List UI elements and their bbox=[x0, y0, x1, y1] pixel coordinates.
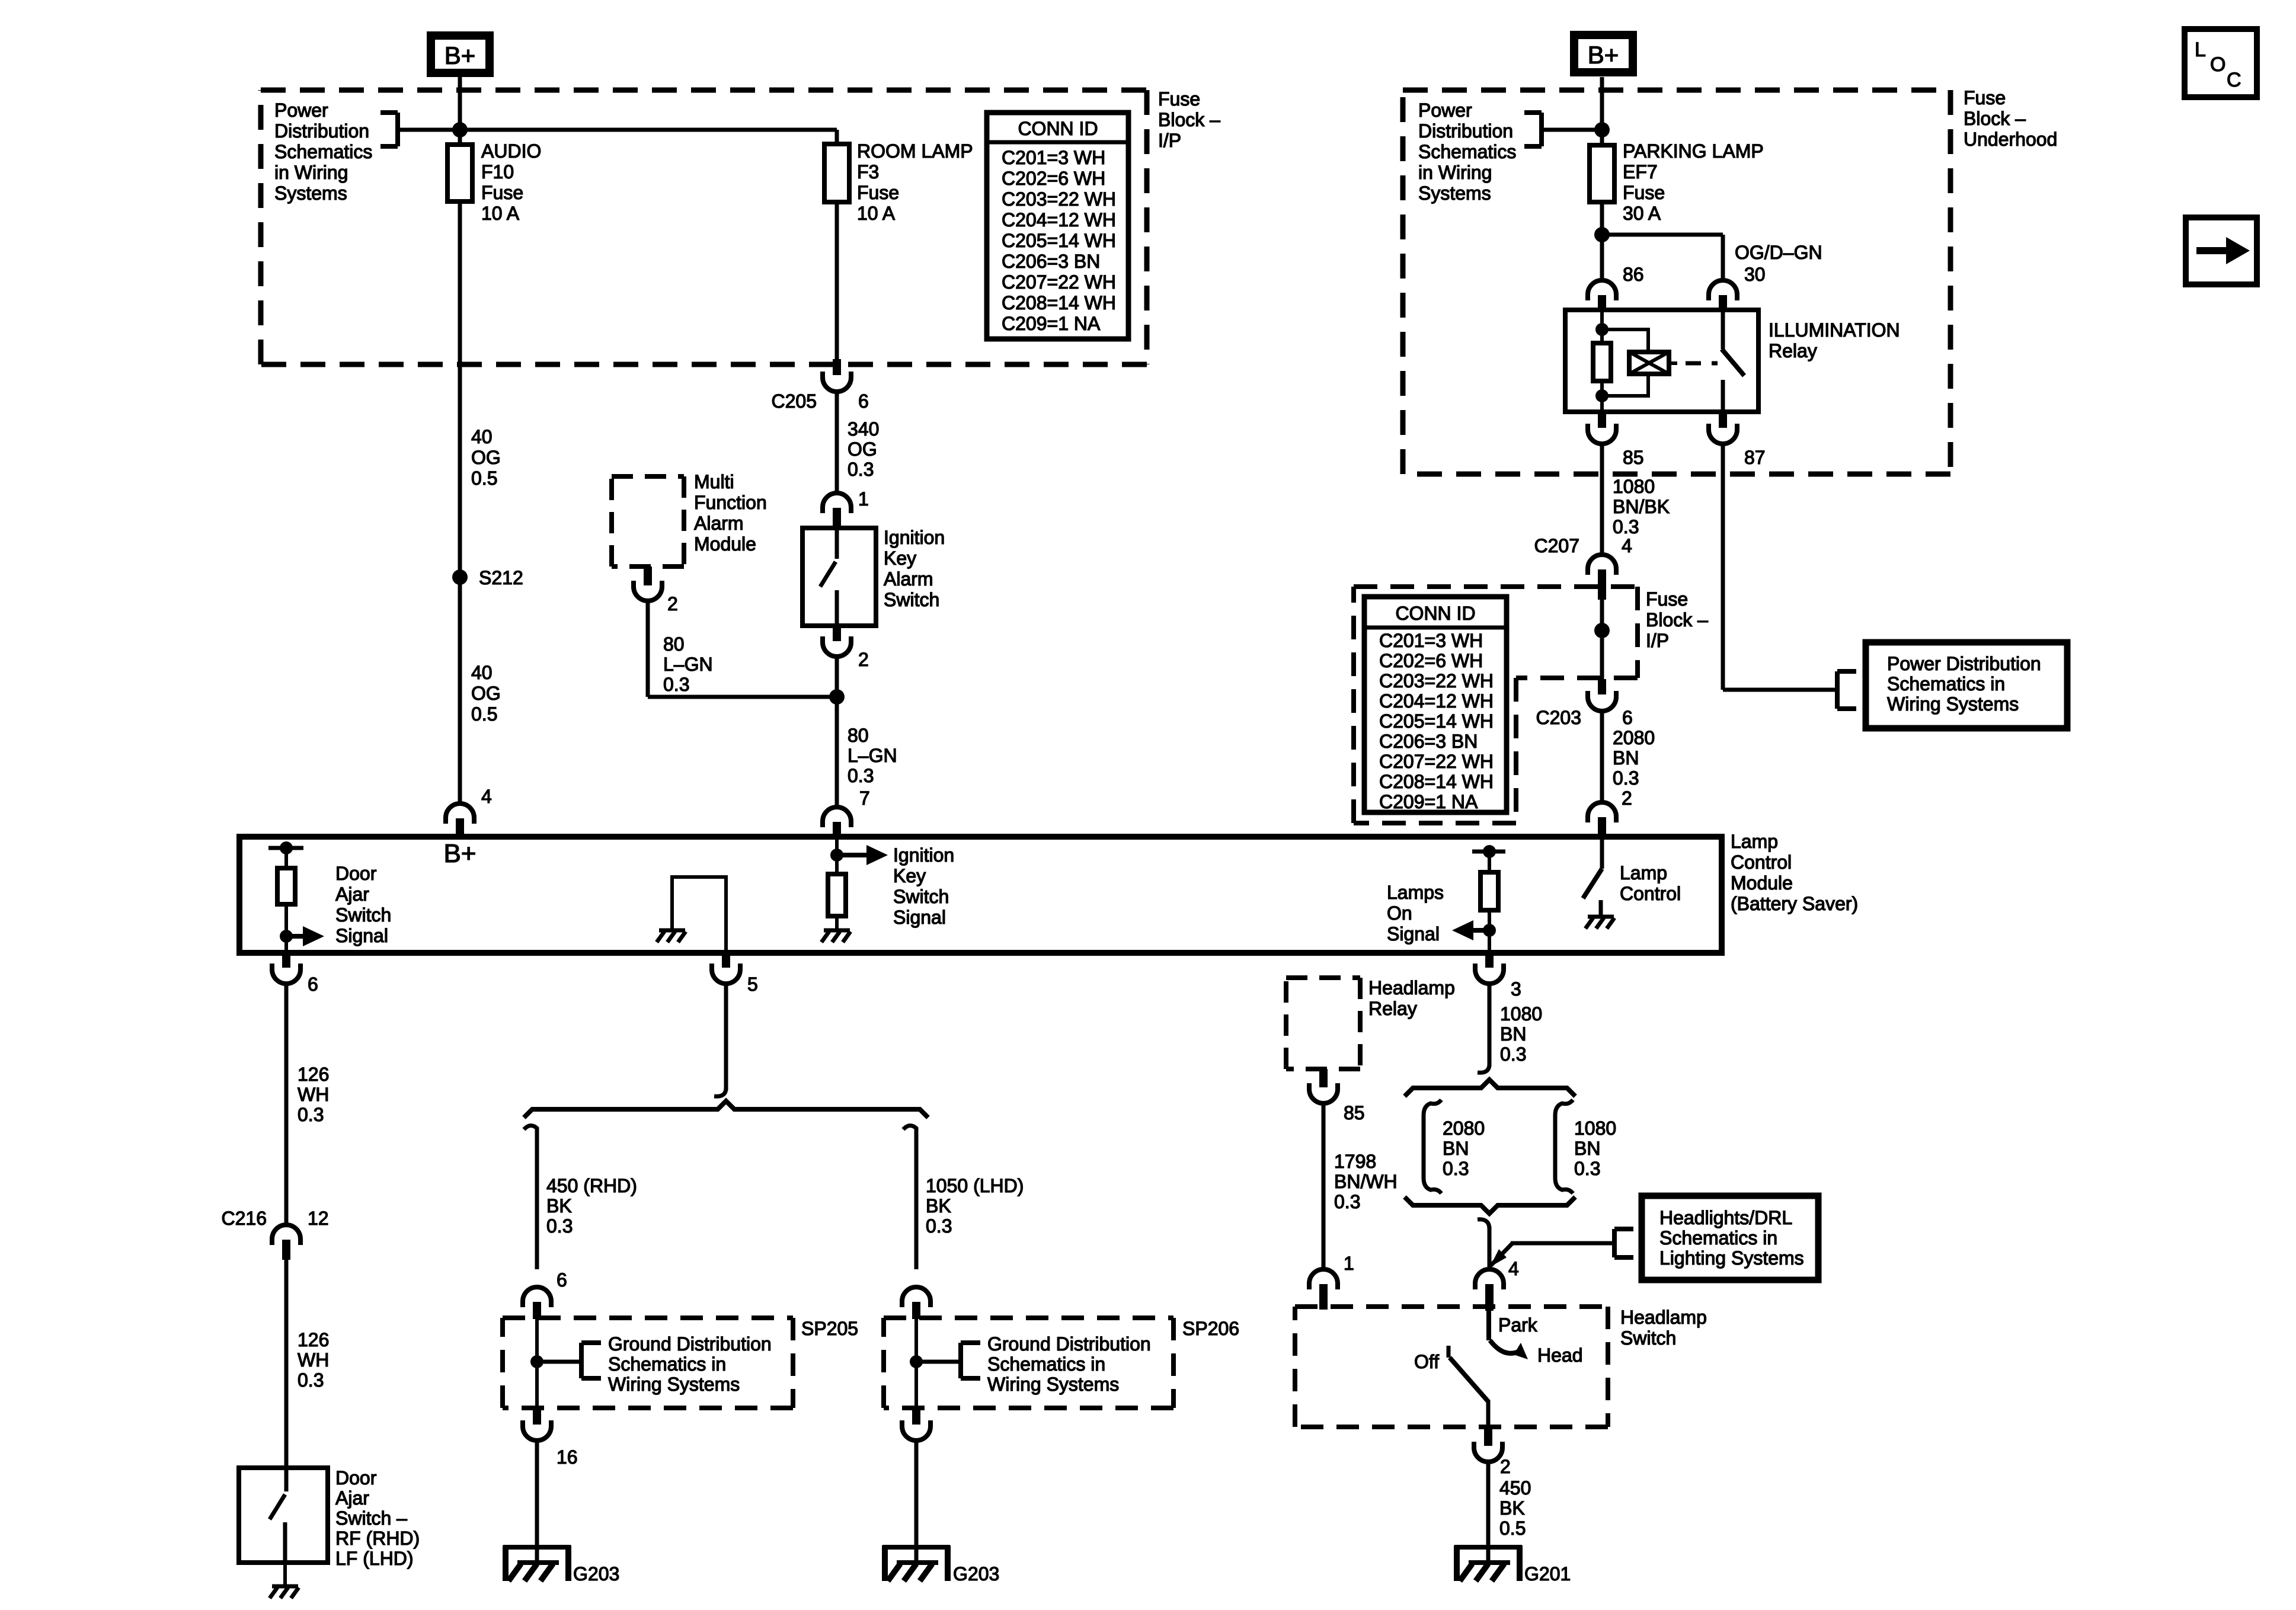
connector 2 to module bbox=[1588, 802, 1616, 822]
svg-text:Signal: Signal bbox=[1387, 923, 1440, 945]
brace split right bottom bbox=[1405, 1197, 1575, 1214]
svg-text:PARKING LAMP: PARKING LAMP bbox=[1623, 140, 1764, 162]
bracket Power Distribution ref (left) bbox=[395, 113, 400, 146]
svg-text:40: 40 bbox=[471, 426, 493, 447]
svg-text:RF (RHD): RF (RHD) bbox=[335, 1528, 420, 1549]
svg-text:0.3: 0.3 bbox=[1334, 1191, 1360, 1212]
svg-text:Schematics in: Schematics in bbox=[1659, 1227, 1777, 1249]
svg-text:C205: C205 bbox=[772, 391, 817, 412]
door ajar switch ground bbox=[283, 1563, 287, 1585]
svg-text:Fuse: Fuse bbox=[1964, 87, 2006, 108]
svg-text:Underhood: Underhood bbox=[1964, 129, 2057, 150]
svg-text:C206=3 BN: C206=3 BN bbox=[1379, 731, 1478, 752]
svg-text:C203: C203 bbox=[1536, 707, 1582, 728]
svg-text:C207=22 WH: C207=22 WH bbox=[1002, 271, 1116, 293]
svg-text:C201=3 WH: C201=3 WH bbox=[1002, 147, 1105, 168]
svg-text:Off: Off bbox=[1414, 1351, 1439, 1372]
svg-text:0.5: 0.5 bbox=[471, 468, 497, 489]
svg-text:Headlamp: Headlamp bbox=[1368, 977, 1455, 998]
wire B+ right vertical bbox=[1600, 77, 1604, 280]
svg-text:87: 87 bbox=[1744, 447, 1766, 468]
connector relay pin 87 bbox=[1719, 412, 1727, 428]
svg-text:4: 4 bbox=[1508, 1258, 1519, 1279]
svg-text:F10: F10 bbox=[481, 161, 514, 183]
wire branch to pin 30 bbox=[1602, 233, 1723, 237]
svg-text:ROOM LAMP: ROOM LAMP bbox=[857, 140, 973, 162]
svg-text:Fuse: Fuse bbox=[1623, 182, 1665, 203]
svg-text:BK: BK bbox=[546, 1195, 572, 1217]
svg-text:450 (RHD): 450 (RHD) bbox=[546, 1175, 637, 1196]
relay switch blade bbox=[1721, 310, 1725, 349]
svg-text:C: C bbox=[2227, 69, 2241, 91]
svg-text:6: 6 bbox=[858, 391, 869, 412]
svg-text:ILLUMINATION: ILLUMINATION bbox=[1769, 319, 1900, 341]
svg-text:CONN ID: CONN ID bbox=[1018, 118, 1098, 139]
svg-text:I/P: I/P bbox=[1646, 630, 1669, 651]
svg-text:C203=22 WH: C203=22 WH bbox=[1002, 188, 1116, 210]
ground G203 left bbox=[503, 1545, 571, 1550]
svg-text:Power Distribution: Power Distribution bbox=[1887, 653, 2041, 674]
svg-text:C209=1 NA: C209=1 NA bbox=[1002, 313, 1101, 334]
svg-text:BN: BN bbox=[1443, 1138, 1469, 1159]
off contact stub bbox=[1447, 1346, 1451, 1358]
svg-text:3: 3 bbox=[1511, 978, 1521, 1000]
svg-text:I/P: I/P bbox=[1158, 130, 1181, 151]
brace split left bbox=[524, 1101, 928, 1118]
svg-text:Power: Power bbox=[1418, 100, 1472, 121]
headlamp switch dashed box bbox=[1295, 1307, 1608, 1427]
node door ajar signal bbox=[280, 930, 293, 943]
svg-text:C202=6 WH: C202=6 WH bbox=[1002, 168, 1105, 189]
LOC reference box bbox=[2185, 29, 2257, 97]
connector 6 below module bbox=[282, 953, 290, 968]
connector 85 headlamp relay bbox=[1319, 1069, 1328, 1087]
svg-text:EF7: EF7 bbox=[1623, 161, 1658, 183]
svg-text:C205=14 WH: C205=14 WH bbox=[1379, 710, 1494, 732]
svg-text:Headlamp: Headlamp bbox=[1620, 1307, 1707, 1328]
svg-text:C209=1 NA: C209=1 NA bbox=[1379, 791, 1478, 812]
wire through SP205 bbox=[535, 1319, 539, 1408]
wire branch SP206 bbox=[914, 1133, 919, 1269]
svg-text:Lamp: Lamp bbox=[1620, 862, 1667, 884]
connector relay pin 86 bbox=[1588, 280, 1616, 300]
svg-text:L–GN: L–GN bbox=[848, 745, 897, 766]
svg-text:Switch: Switch bbox=[335, 904, 391, 926]
svg-text:Schematics in: Schematics in bbox=[608, 1353, 726, 1375]
bracket headlights ref bbox=[1612, 1229, 1617, 1257]
svg-text:Lamp: Lamp bbox=[1731, 831, 1778, 852]
svg-text:OG: OG bbox=[848, 438, 877, 460]
svg-text:16: 16 bbox=[557, 1446, 578, 1468]
module MFAM dashed box bbox=[612, 476, 684, 566]
brace label left 2080 bbox=[1424, 1100, 1441, 1193]
svg-text:1: 1 bbox=[858, 488, 869, 510]
svg-text:340: 340 bbox=[848, 418, 879, 440]
bracket ground distribution SP206 bbox=[916, 1360, 961, 1364]
wire branch SP205 bbox=[535, 1133, 539, 1269]
power symbol B+ (left) bbox=[431, 36, 490, 73]
svg-text:in Wiring: in Wiring bbox=[1418, 162, 1492, 183]
lamps on terminal bar bbox=[1472, 850, 1505, 854]
svg-text:86: 86 bbox=[1623, 264, 1644, 285]
svg-text:C216: C216 bbox=[222, 1208, 267, 1229]
node junction at B+ left bbox=[452, 122, 468, 137]
fuse block I/P dashed outline (right) bbox=[1354, 587, 1638, 823]
wire SP206 to ground bbox=[914, 1441, 919, 1563]
CONN ID table 1 bbox=[987, 113, 1128, 339]
svg-text:1080: 1080 bbox=[1500, 1003, 1542, 1025]
svg-text:SP206: SP206 bbox=[1182, 1318, 1239, 1339]
connector 16 SP205 bbox=[533, 1408, 541, 1425]
fuse F10 AUDIO bbox=[447, 145, 472, 201]
svg-text:10 A: 10 A bbox=[481, 203, 520, 224]
svg-text:Schematics: Schematics bbox=[274, 141, 372, 162]
wire MFAM to junction bbox=[646, 601, 650, 697]
svg-text:10 A: 10 A bbox=[857, 203, 896, 224]
relay internal wire and nodes bbox=[1600, 310, 1604, 412]
door ajar resistor bbox=[284, 848, 288, 868]
connector 3 below module bbox=[1485, 953, 1494, 968]
svg-text:in Wiring: in Wiring bbox=[274, 162, 348, 183]
brace label right 1080 bbox=[1555, 1100, 1573, 1193]
svg-text:BN/WH: BN/WH bbox=[1334, 1171, 1398, 1192]
svg-text:1080: 1080 bbox=[1574, 1118, 1616, 1139]
svg-text:2: 2 bbox=[858, 649, 869, 670]
ignition key alarm switch box bbox=[802, 528, 876, 626]
svg-text:WH: WH bbox=[298, 1349, 329, 1371]
connector 2 headlamp switch bbox=[1484, 1428, 1492, 1446]
svg-text:80: 80 bbox=[848, 725, 869, 746]
svg-text:5: 5 bbox=[747, 974, 758, 995]
svg-text:C206=3 BN: C206=3 BN bbox=[1002, 251, 1100, 272]
wire door ajar down2 bbox=[284, 1260, 289, 1468]
ground G201 bbox=[1454, 1545, 1522, 1550]
svg-text:Switch –: Switch – bbox=[335, 1507, 407, 1529]
connector relay pin 85 bbox=[1598, 412, 1606, 428]
ILLUMINATION relay box bbox=[1565, 310, 1758, 412]
svg-text:Switch: Switch bbox=[884, 589, 939, 610]
connector relay pin 30 bbox=[1709, 280, 1737, 300]
bracket Power Distribution ref (right) bbox=[1539, 113, 1544, 146]
connector C203 bbox=[1598, 679, 1606, 694]
svg-text:0.3: 0.3 bbox=[926, 1215, 952, 1237]
svg-text:Module: Module bbox=[1731, 872, 1793, 894]
wire F3 to C205 bbox=[835, 202, 839, 359]
svg-text:C208=14 WH: C208=14 WH bbox=[1379, 771, 1494, 792]
fuse block underhood dashed box bbox=[1403, 90, 1950, 474]
svg-text:Alarm: Alarm bbox=[694, 513, 744, 534]
svg-text:Ground Distribution: Ground Distribution bbox=[608, 1333, 772, 1355]
svg-text:0.3: 0.3 bbox=[1613, 767, 1639, 789]
svg-text:F3: F3 bbox=[857, 161, 879, 183]
svg-text:6: 6 bbox=[1622, 707, 1633, 728]
svg-text:Module: Module bbox=[694, 533, 756, 555]
svg-text:G203: G203 bbox=[573, 1563, 619, 1585]
wire break curl right top bbox=[1478, 1064, 1489, 1073]
connector C205 bbox=[833, 359, 841, 375]
wire horizontal distribution left bbox=[398, 128, 837, 132]
svg-text:450: 450 bbox=[1499, 1477, 1531, 1499]
svg-text:Headlights/DRL: Headlights/DRL bbox=[1659, 1207, 1792, 1228]
wire door ajar down1 bbox=[284, 984, 289, 1225]
door ajar switch box bbox=[239, 1468, 328, 1563]
brace split right top bbox=[1405, 1080, 1575, 1096]
wire through fuse block bbox=[1600, 600, 1604, 679]
svg-text:Power: Power bbox=[274, 100, 328, 121]
wire through SP206 bbox=[914, 1319, 918, 1408]
wire branch to headlights ref bbox=[1491, 1243, 1512, 1266]
wire conn3 down bbox=[1488, 984, 1492, 1067]
arrow door ajar signal bbox=[286, 934, 304, 939]
svg-text:0.3: 0.3 bbox=[1613, 516, 1639, 537]
svg-text:Control: Control bbox=[1731, 852, 1792, 873]
power symbol B+ (right) bbox=[1574, 35, 1633, 72]
svg-text:Switch: Switch bbox=[1620, 1327, 1676, 1349]
svg-text:6: 6 bbox=[557, 1269, 567, 1291]
svg-text:Ground Distribution: Ground Distribution bbox=[987, 1333, 1151, 1355]
svg-text:CONN ID: CONN ID bbox=[1395, 603, 1475, 624]
lamp control ground bbox=[1588, 915, 1614, 919]
svg-text:C202=6 WH: C202=6 WH bbox=[1379, 650, 1483, 671]
power distribution schematics box bbox=[1866, 642, 2067, 728]
svg-text:0.3: 0.3 bbox=[1500, 1044, 1526, 1065]
module internal ground wire bbox=[672, 877, 726, 953]
svg-text:SP205: SP205 bbox=[801, 1318, 858, 1339]
svg-text:1050 (LHD): 1050 (LHD) bbox=[926, 1175, 1024, 1196]
module ground symbol ignition bbox=[824, 929, 850, 933]
svg-text:0.3: 0.3 bbox=[848, 459, 874, 480]
svg-text:Ignition: Ignition bbox=[884, 527, 945, 548]
svg-text:1080: 1080 bbox=[1613, 476, 1655, 497]
relay coil branch wire bbox=[1602, 329, 1648, 352]
svg-text:BK: BK bbox=[926, 1195, 951, 1217]
lamps on resistor bbox=[1488, 852, 1491, 872]
svg-text:2: 2 bbox=[1500, 1456, 1511, 1477]
svg-text:C207: C207 bbox=[1534, 535, 1580, 556]
svg-text:30: 30 bbox=[1744, 264, 1766, 285]
wire C205 down bbox=[835, 392, 839, 493]
wire to G201 bbox=[1486, 1462, 1491, 1563]
connector MFAM pin 2 bbox=[644, 566, 652, 585]
svg-text:C204=12 WH: C204=12 WH bbox=[1002, 209, 1116, 231]
svg-text:Park: Park bbox=[1498, 1314, 1538, 1336]
svg-text:L: L bbox=[2195, 39, 2206, 61]
svg-text:Fuse: Fuse bbox=[857, 182, 899, 203]
svg-text:BN: BN bbox=[1574, 1138, 1600, 1159]
svg-text:0.3: 0.3 bbox=[663, 674, 689, 695]
svg-text:Signal: Signal bbox=[335, 925, 388, 946]
fuse block I/P dashed box (left) bbox=[261, 90, 1147, 364]
svg-text:BN: BN bbox=[1500, 1023, 1526, 1045]
svg-text:Block –: Block – bbox=[1158, 109, 1220, 130]
svg-text:Key: Key bbox=[884, 548, 916, 569]
bracket power distribution box bbox=[1835, 671, 1840, 709]
svg-text:30 A: 30 A bbox=[1623, 203, 1661, 224]
svg-text:12: 12 bbox=[308, 1208, 329, 1229]
svg-text:Fuse: Fuse bbox=[481, 182, 523, 203]
wire break curl right bottom bbox=[1478, 1219, 1489, 1229]
svg-text:S212: S212 bbox=[479, 567, 523, 588]
svg-text:4: 4 bbox=[481, 786, 492, 807]
svg-text:Systems: Systems bbox=[1418, 183, 1491, 204]
wire pin 85 down bbox=[1600, 444, 1604, 555]
svg-text:C204=12 WH: C204=12 WH bbox=[1379, 690, 1494, 712]
svg-text:Switch: Switch bbox=[893, 886, 949, 907]
relay actuator dashed bbox=[1686, 361, 1718, 366]
svg-text:126: 126 bbox=[298, 1329, 329, 1350]
connector C207 bbox=[1588, 555, 1616, 575]
node junction 80 L-GN bbox=[829, 689, 845, 705]
svg-text:C207=22 WH: C207=22 WH bbox=[1379, 751, 1494, 772]
svg-text:0.5: 0.5 bbox=[471, 703, 497, 725]
ground G203 right bbox=[882, 1545, 950, 1550]
svg-text:Wiring Systems: Wiring Systems bbox=[1887, 693, 2019, 715]
svg-text:Systems: Systems bbox=[274, 183, 347, 204]
svg-text:40: 40 bbox=[471, 662, 493, 683]
fuse EF7 PARKING LAMP bbox=[1590, 145, 1614, 202]
arrow lamps on signal bbox=[1472, 928, 1489, 933]
svg-text:Ajar: Ajar bbox=[335, 1487, 369, 1509]
svg-text:2: 2 bbox=[1622, 788, 1632, 809]
svg-text:126: 126 bbox=[298, 1064, 329, 1085]
wire headlamp relay down bbox=[1322, 1103, 1326, 1269]
wire ignition down bbox=[835, 657, 839, 807]
wire horizontal distribution right bbox=[1542, 128, 1602, 132]
bracket ground distribution SP205 bbox=[537, 1360, 581, 1364]
lamp control module box bbox=[239, 837, 1722, 953]
wire headlamp switch down bbox=[1486, 1400, 1491, 1428]
relay coil bbox=[1629, 352, 1669, 374]
svg-text:BN/BK: BN/BK bbox=[1613, 496, 1670, 517]
headlamp relay dashed box bbox=[1286, 978, 1360, 1069]
svg-text:Lamps: Lamps bbox=[1387, 882, 1444, 903]
svg-text:C203=22 WH: C203=22 WH bbox=[1379, 670, 1494, 692]
svg-text:0.3: 0.3 bbox=[848, 765, 874, 786]
svg-text:0.3: 0.3 bbox=[546, 1215, 573, 1237]
svg-text:0.3: 0.3 bbox=[298, 1104, 324, 1125]
switch blade ignition bbox=[835, 528, 839, 559]
svg-text:0.3: 0.3 bbox=[1574, 1158, 1600, 1179]
svg-text:C201=3 WH: C201=3 WH bbox=[1379, 630, 1483, 651]
svg-text:1: 1 bbox=[1344, 1253, 1354, 1274]
door ajar switch blade bbox=[284, 1468, 289, 1491]
svg-text:Block –: Block – bbox=[1964, 108, 2026, 129]
ignition key resistor to ground bbox=[835, 837, 839, 874]
svg-text:4: 4 bbox=[1622, 535, 1632, 556]
svg-text:BK: BK bbox=[1499, 1497, 1525, 1519]
svg-text:(Battery Saver): (Battery Saver) bbox=[1731, 893, 1858, 914]
wire conn5 down bbox=[724, 984, 728, 1090]
node junction fuse block bbox=[1594, 623, 1610, 638]
svg-text:Ignition: Ignition bbox=[893, 844, 954, 866]
svg-text:OG/D–GN: OG/D–GN bbox=[1735, 242, 1822, 263]
connector SP206 top bbox=[902, 1287, 930, 1307]
svg-text:G203: G203 bbox=[953, 1563, 999, 1585]
connector 5 below module bbox=[722, 953, 730, 968]
splice SP206 dashed box bbox=[884, 1318, 1173, 1408]
svg-text:C205=14 WH: C205=14 WH bbox=[1002, 230, 1116, 251]
lamp control switch bbox=[1600, 837, 1604, 869]
CONN ID table 2 bbox=[1364, 597, 1507, 812]
svg-text:Signal: Signal bbox=[893, 907, 946, 928]
wire break curl left split bbox=[714, 1088, 726, 1096]
headlamp switch blade bbox=[1450, 1358, 1488, 1401]
svg-text:Ajar: Ajar bbox=[335, 884, 369, 905]
node junction OG/D-GN bbox=[1594, 227, 1610, 242]
fuse F3 ROOM LAMP bbox=[824, 144, 849, 202]
svg-text:B+: B+ bbox=[443, 839, 476, 868]
node junction at B+ right bbox=[1594, 122, 1610, 137]
svg-text:Door: Door bbox=[335, 863, 377, 884]
arrow reference box bbox=[2186, 217, 2257, 284]
svg-text:Lighting Systems: Lighting Systems bbox=[1659, 1247, 1804, 1269]
wire to connector 4 bbox=[1488, 1227, 1492, 1270]
svg-text:Fuse: Fuse bbox=[1158, 88, 1200, 110]
svg-text:LF (LHD): LF (LHD) bbox=[335, 1548, 414, 1569]
svg-text:B+: B+ bbox=[1588, 41, 1619, 69]
wire to fuse F3 bbox=[835, 130, 839, 144]
curl branch SP205 bbox=[524, 1125, 537, 1135]
svg-text:Door: Door bbox=[335, 1467, 377, 1489]
svg-text:80: 80 bbox=[663, 633, 685, 655]
svg-text:Distribution: Distribution bbox=[1418, 120, 1513, 142]
door ajar terminal bar bbox=[268, 846, 303, 850]
wire SP205 to ground bbox=[535, 1441, 539, 1563]
svg-text:Fuse: Fuse bbox=[1646, 588, 1688, 610]
ignition key node and arrow bbox=[830, 849, 843, 862]
svg-text:On: On bbox=[1387, 902, 1412, 924]
svg-text:Schematics: Schematics bbox=[1418, 141, 1516, 162]
curl branch SP206 bbox=[903, 1125, 916, 1135]
svg-text:0.3: 0.3 bbox=[1443, 1158, 1469, 1179]
svg-text:6: 6 bbox=[308, 974, 318, 995]
headlights DRL schematics box bbox=[1642, 1196, 1818, 1280]
svg-text:L–GN: L–GN bbox=[663, 654, 713, 675]
svg-text:Alarm: Alarm bbox=[884, 568, 933, 590]
svg-text:C208=14 WH: C208=14 WH bbox=[1002, 292, 1116, 313]
splice SP205 dashed box bbox=[503, 1318, 793, 1408]
svg-text:G201: G201 bbox=[1524, 1563, 1571, 1585]
svg-text:Schematics in: Schematics in bbox=[987, 1353, 1105, 1375]
wire pin 87 down bbox=[1721, 444, 1725, 690]
svg-text:85: 85 bbox=[1344, 1102, 1365, 1124]
svg-text:1798: 1798 bbox=[1334, 1151, 1376, 1172]
module internal ground symbol bbox=[659, 929, 685, 933]
svg-text:Function: Function bbox=[694, 492, 767, 513]
wire C203 down bbox=[1600, 711, 1604, 802]
svg-text:O: O bbox=[2210, 53, 2225, 76]
svg-text:Block –: Block – bbox=[1646, 609, 1708, 630]
svg-text:2080: 2080 bbox=[1613, 727, 1655, 748]
connector 2 ignition switch bbox=[833, 626, 841, 641]
node lamps on signal bbox=[1483, 924, 1496, 937]
svg-text:Distribution: Distribution bbox=[274, 120, 369, 142]
wire B+ left vertical main bbox=[458, 77, 462, 804]
svg-text:2080: 2080 bbox=[1443, 1118, 1485, 1139]
svg-text:85: 85 bbox=[1623, 447, 1644, 468]
node S212 bbox=[452, 569, 468, 585]
svg-text:AUDIO: AUDIO bbox=[481, 140, 541, 162]
svg-text:Key: Key bbox=[893, 865, 926, 886]
svg-text:Relay: Relay bbox=[1769, 340, 1817, 361]
svg-text:OG: OG bbox=[471, 447, 501, 468]
svg-text:Wiring Systems: Wiring Systems bbox=[608, 1374, 740, 1395]
relay resistor bbox=[1593, 343, 1611, 381]
svg-text:WH: WH bbox=[298, 1084, 329, 1105]
svg-text:Multi: Multi bbox=[694, 471, 734, 492]
svg-text:7: 7 bbox=[859, 788, 870, 809]
svg-text:OG: OG bbox=[471, 683, 501, 704]
